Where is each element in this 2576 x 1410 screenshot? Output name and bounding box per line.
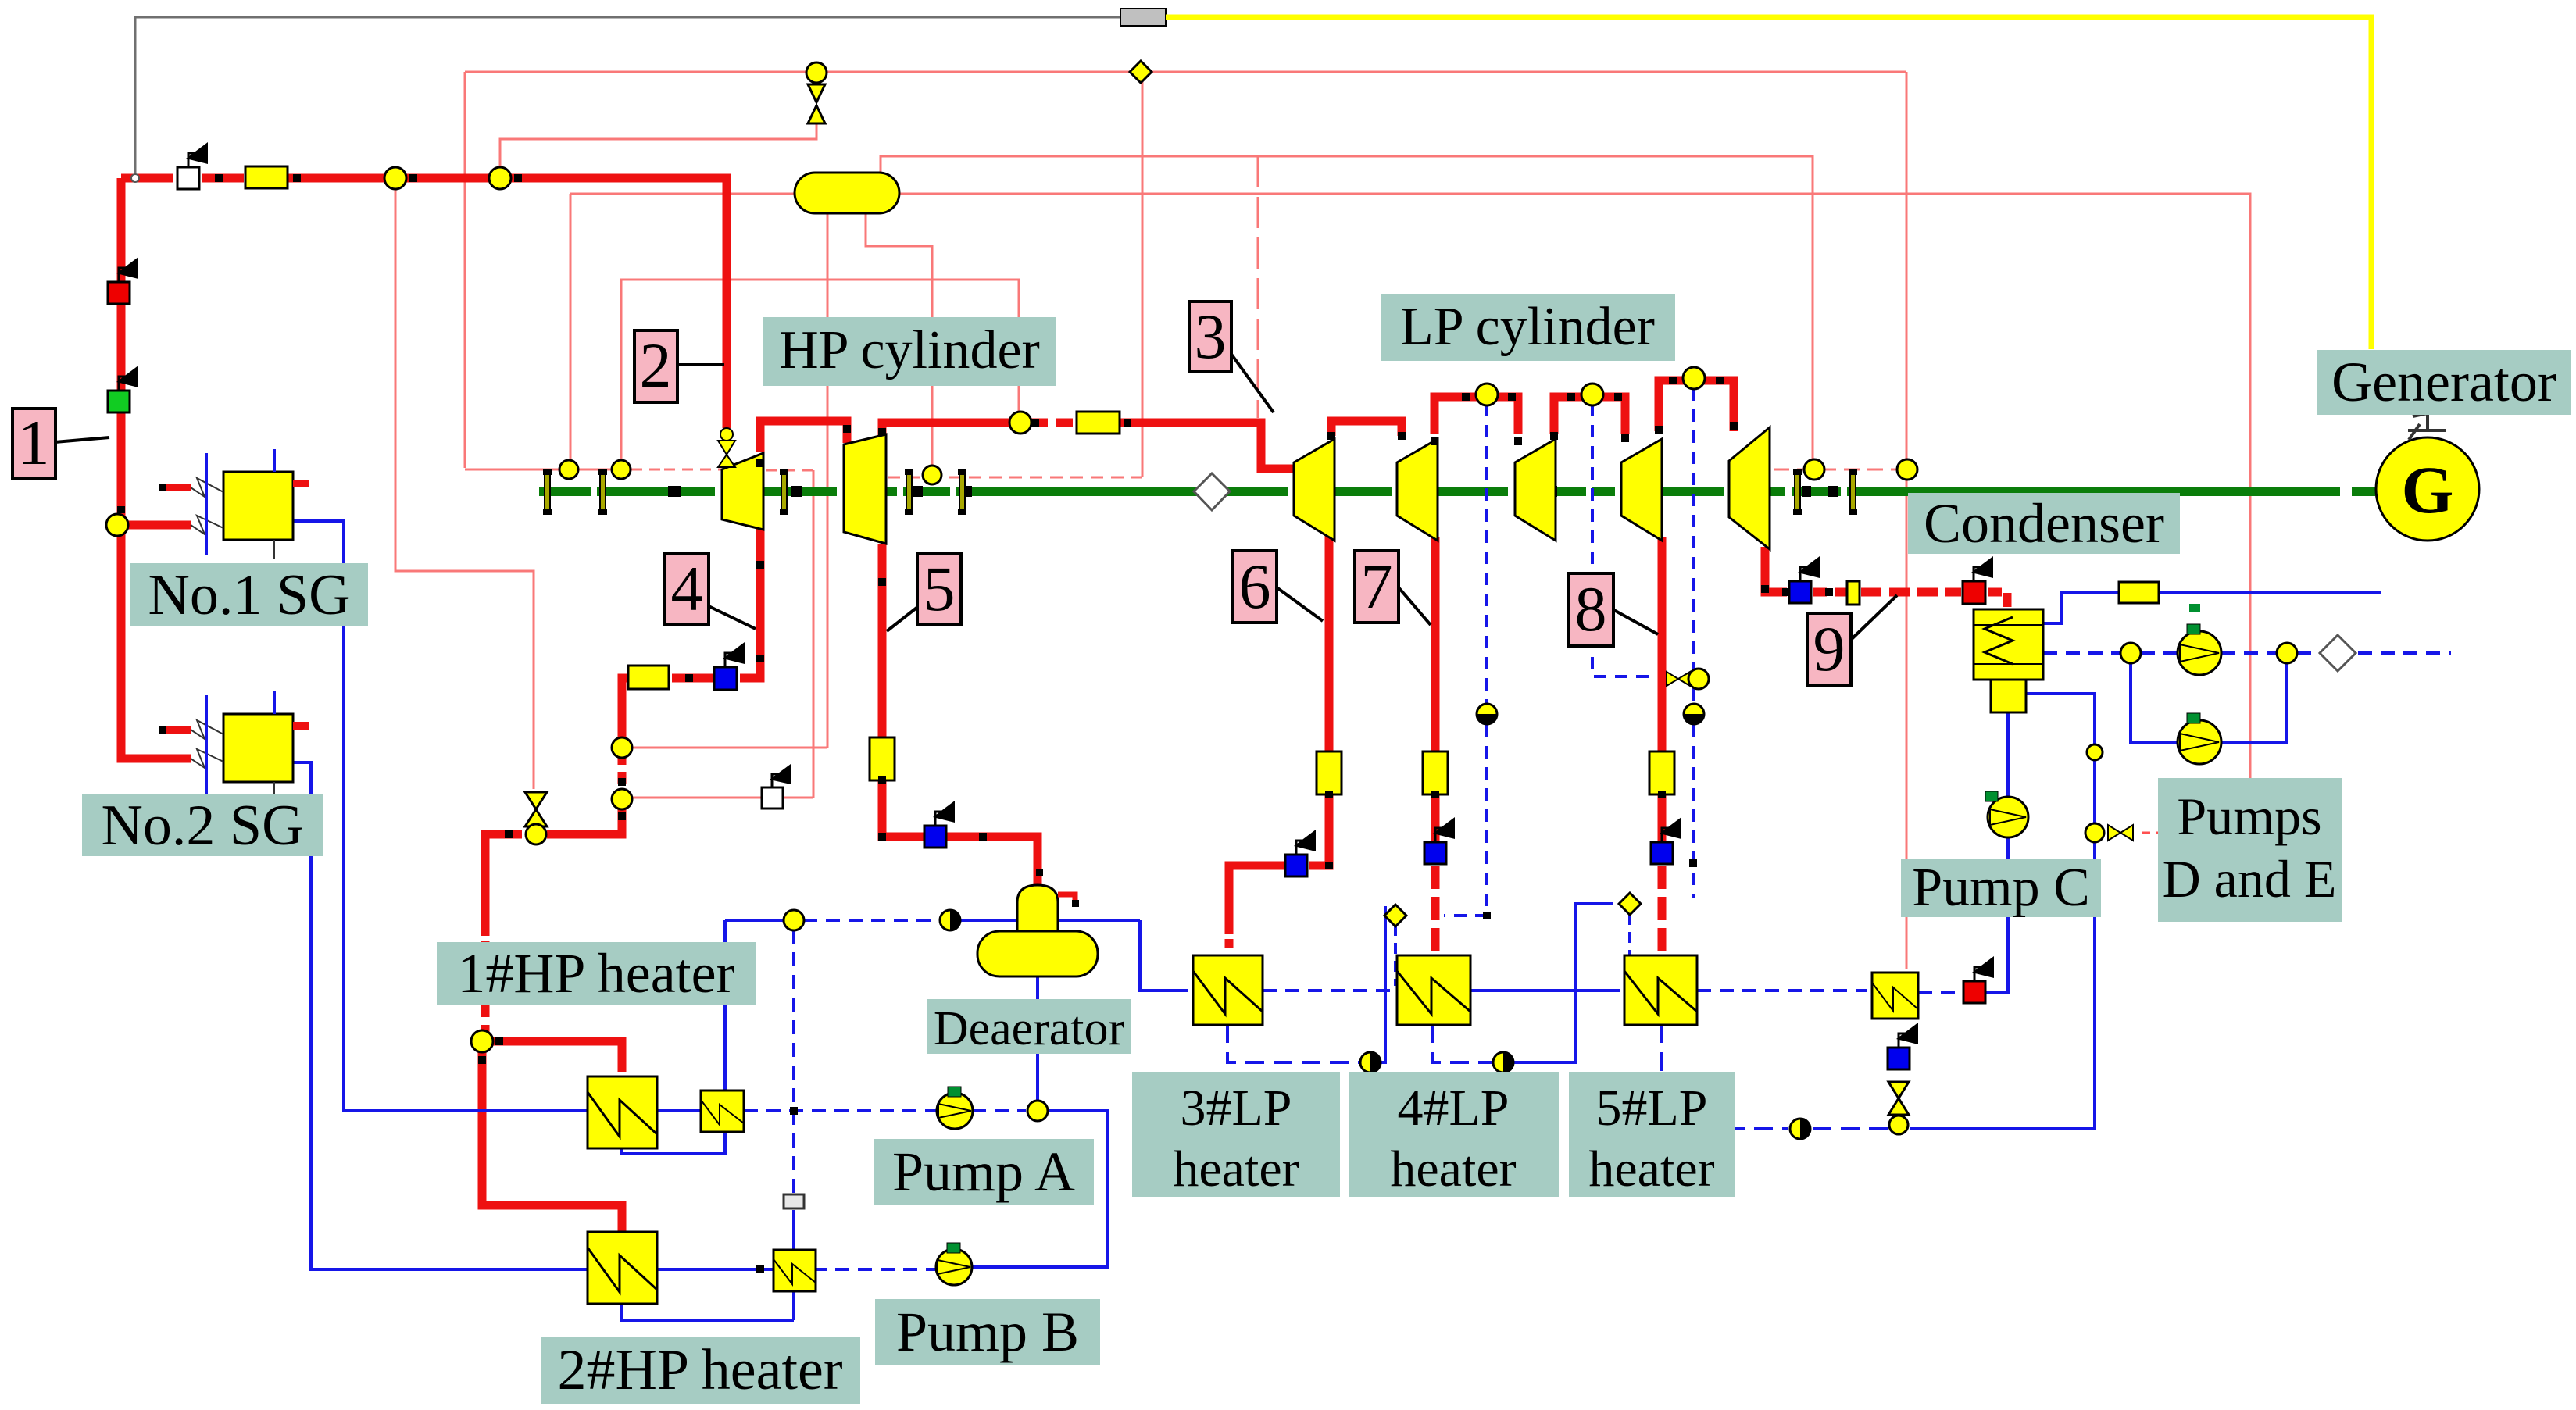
gray box <box>1120 9 1166 26</box>
pipe extraction 4 from HP1 <box>740 528 760 678</box>
bearing B2 <box>598 469 607 515</box>
node circle gland right 1 <box>1804 459 1824 480</box>
wire feedwater 2#HP heater row <box>657 1268 777 1271</box>
label Deaerator <box>927 999 1131 1055</box>
steam generator No.2 <box>159 691 309 801</box>
svg-text:2: 2 <box>640 330 672 401</box>
turbine LP5 <box>1729 427 1770 549</box>
wire drum bottom left vertical x=1059 <box>827 213 829 748</box>
pipe LP4-LP5 bridge <box>1659 380 1734 431</box>
wire stub drum to downcomer <box>731 193 795 195</box>
bearing B4 <box>905 469 913 515</box>
svg-text:heater: heater <box>1588 1140 1714 1198</box>
pipe extraction 8 from LP4 to 5#LP heater <box>1658 537 1667 751</box>
wire 4# drain riser into 5# heater <box>1628 914 1631 955</box>
svg-text:8: 8 <box>1575 573 1607 644</box>
wire 3# drain into main line <box>1394 925 1397 986</box>
pipe main steam left vertical x=155 <box>121 178 191 759</box>
valve red on left main <box>108 257 138 304</box>
bearing B6 <box>1793 469 1802 515</box>
turbine HP1 <box>722 453 763 530</box>
label Pump C <box>1901 858 2101 918</box>
wire gray control line <box>135 17 1120 178</box>
wire T2 from main-line circle up to hourglass <box>500 123 816 178</box>
label 1#HP heater <box>437 942 756 1005</box>
node circle drain column top <box>784 910 804 930</box>
svg-text:9: 9 <box>1813 613 1845 684</box>
pump B <box>936 1243 972 1285</box>
svg-text:Pump C: Pump C <box>1912 858 2090 918</box>
shaft main <box>539 486 2375 497</box>
svg-text:3: 3 <box>1195 301 1227 372</box>
wire vertical x=1041 down to white-valve line <box>813 470 815 798</box>
svg-text:No.1 SG: No.1 SG <box>148 563 350 627</box>
wire condenser aux line y=758 <box>2043 592 2119 623</box>
bearing B5 <box>958 469 966 515</box>
drain cooler small 2# row <box>774 1250 816 1291</box>
breaker small gray on drain column <box>784 1194 804 1208</box>
bearing B7 <box>1849 469 1857 515</box>
drain cooler small 1# row <box>701 1091 744 1132</box>
svg-text:Deaerator: Deaerator <box>934 1002 1125 1055</box>
node diamond on T1 <box>1130 61 1152 83</box>
valve blue on extraction 6 <box>1285 830 1316 876</box>
pipe LP5 exhaust to condenser <box>1765 547 1787 592</box>
label Generator <box>2317 350 2571 415</box>
gland steam cooler <box>1872 973 1918 1019</box>
svg-text:Pump A: Pump A <box>892 1140 1075 1203</box>
valve green on left main <box>108 366 138 412</box>
label No.1 SG <box>130 563 368 627</box>
tag 8 <box>1569 573 1658 646</box>
black shaft ticks <box>668 486 1838 497</box>
label Pumps D and E <box>2158 778 2342 922</box>
heater 4#LP <box>1397 955 1470 1025</box>
svg-text:Pump B: Pump B <box>896 1301 1079 1363</box>
node circle on main header 1 <box>384 167 406 189</box>
svg-text:5: 5 <box>924 553 956 624</box>
svg-text:1: 1 <box>18 407 50 478</box>
tag 2 <box>634 330 724 402</box>
svg-text:4: 4 <box>671 553 703 624</box>
node circle bridge LP3-LP4 <box>1581 384 1603 405</box>
wire feedwater 1#HP heater row <box>657 1109 701 1112</box>
node circle condensate after pump D <box>2277 643 2297 663</box>
node circle bridge LP2-LP3 <box>1476 384 1498 405</box>
wire T5 lower part to aux heater <box>1906 469 1908 969</box>
node circle deaerator outlet <box>1027 1101 1048 1121</box>
label No.2 SG <box>82 794 323 858</box>
wire LP extraction dashed A x=1903 <box>1485 404 1488 704</box>
tag 3 <box>1189 301 1274 412</box>
valve white on main header <box>177 142 208 189</box>
wire LP1 inlet riser x=1610 <box>1257 156 1259 418</box>
pipe LP2-LP3 bridge <box>1434 397 1518 434</box>
node circle on riser to pumps DE <box>2087 744 2103 760</box>
svg-text:D and E: D and E <box>2163 849 2337 908</box>
wire condensate pumps main y=836 <box>2043 651 2120 655</box>
svg-text:6: 6 <box>1239 551 1271 622</box>
orifice on crossover <box>1077 412 1120 434</box>
tag 4 <box>665 553 756 629</box>
pipe extraction 7 from LP2 to 4#LP heater <box>1431 537 1440 751</box>
generator <box>2376 410 2479 541</box>
label 2#HP heater <box>541 1337 860 1404</box>
wire diamond descender x=1462 <box>1142 77 1144 477</box>
label Pump B <box>875 1299 1100 1365</box>
label LP cylinder <box>1381 294 1675 361</box>
wire yellow electric line <box>1166 17 2371 349</box>
node small circle gray line tap <box>131 174 139 182</box>
valve blue on extraction 5 <box>924 801 955 848</box>
wire 4# drain <box>1432 1024 1493 1062</box>
wire pump E bypass loop <box>2131 663 2178 742</box>
wire gland line right of LP5 <box>1774 469 1918 471</box>
wire condensate main line 3#-4# <box>1263 989 1392 992</box>
turbine LP3 <box>1515 439 1556 541</box>
label 5#LP heater <box>1569 1072 1735 1198</box>
node circle left main SG1 <box>106 514 128 536</box>
wire deaerator feed line y=1178 <box>725 919 784 922</box>
svg-text:No.2 SG: No.2 SG <box>101 794 303 858</box>
orifice on condenser aux line <box>2119 582 2159 603</box>
label HP cylinder <box>763 317 1056 386</box>
orifice small on LP exhaust <box>1847 581 1860 605</box>
wire SG1 blue drain x=440 <box>293 521 588 1111</box>
steam generator No.1 <box>159 449 309 559</box>
svg-text:2#HP heater: 2#HP heater <box>557 1338 842 1402</box>
node circle gland 2 <box>612 460 631 479</box>
wire gland-steam header T1 y=89 <box>465 71 1906 73</box>
turbine LP4 <box>1621 439 1662 541</box>
node circle on crossover <box>1009 412 1031 434</box>
wire T5 right descender x=2437 <box>1906 72 1908 469</box>
wire dashed red at y=611 right of HP2 <box>888 477 1142 479</box>
bearing B3 <box>780 469 788 515</box>
tag 5 <box>887 553 961 631</box>
node circle above shaft right of HP2 <box>923 466 941 484</box>
valve blue on extraction 7 <box>1424 817 1455 864</box>
valve red at condenser inlet <box>1963 556 1993 604</box>
wire SG2 blue drain x=398 <box>293 762 588 1269</box>
label Pump A <box>874 1139 1094 1205</box>
wire deaerator downcomer <box>1036 976 1039 1101</box>
strainer diamond after pump D <box>2320 635 2356 671</box>
wire LP extraction dashed C x=2168 <box>1692 388 1695 669</box>
pipe LP3-LP4 bridge <box>1554 397 1625 434</box>
wire gland cooler to red valve to pump C <box>1918 991 1963 994</box>
wire gland line left y=601 <box>465 469 568 471</box>
check valve 3# drain <box>1360 1052 1381 1073</box>
pipe to 2#HP heater <box>482 1051 622 1237</box>
shaft diamond coupling <box>1194 473 1230 510</box>
node circle 1#HP feed junction <box>471 1030 493 1052</box>
svg-text:LP cylinder: LP cylinder <box>1400 297 1655 357</box>
pump E <box>2178 713 2221 764</box>
wire extraction tap line y=1021 <box>633 797 762 799</box>
wire condensate main 4#-5# <box>1470 989 1620 992</box>
pipe HP1 to HP2 bridge <box>760 421 847 452</box>
pipe crossover HP2 to LP <box>882 423 1010 436</box>
valve blue on LP exhaust <box>1789 556 1820 603</box>
orifice on extraction 6 <box>1317 751 1342 794</box>
wire heater-drain column x=1016 <box>792 930 795 1194</box>
bearing B1 <box>543 469 552 515</box>
svg-text:7: 7 <box>1361 551 1393 622</box>
valve hourglass on T1 line <box>806 62 827 123</box>
wire aux steam to pumps D and E <box>2142 832 2158 834</box>
svg-text:Condenser: Condenser <box>1924 492 2164 555</box>
tag 7 <box>1355 551 1431 625</box>
wire 5# drain header y=1445 <box>1662 1024 1788 1129</box>
check valve dashed C <box>1684 704 1704 724</box>
svg-text:G: G <box>2402 452 2454 527</box>
valve bowtie aux to pumps DE <box>2085 823 2133 842</box>
wire vertical x=730 to gland circle <box>570 194 572 469</box>
turbine HP2 <box>844 434 886 544</box>
valve blue under gland cooler <box>1888 1023 1918 1069</box>
orifice on extraction 5 <box>870 737 895 780</box>
node circle gland 1 <box>559 460 578 479</box>
orifice on extraction 7 <box>1423 751 1448 794</box>
svg-text:5#LP: 5#LP <box>1595 1080 1707 1137</box>
valve hourglass before 1#HP heater <box>525 792 547 844</box>
node circle on drain header <box>1889 1116 1908 1134</box>
valve hourglass under gland cooler <box>1888 1082 1909 1134</box>
moisture separator drum <box>795 173 899 213</box>
pump D <box>2178 604 2221 675</box>
node circle on main header 2 <box>489 167 511 189</box>
deaerator vessel <box>977 885 1098 976</box>
node circle extraction 4 tap 2 <box>612 789 632 809</box>
wire T1 left descender x=595 to gland line <box>464 72 466 468</box>
svg-text:HP cylinder: HP cylinder <box>779 320 1040 380</box>
valve blue on extraction 4 <box>714 642 745 690</box>
wire pump C to hotwell <box>2006 712 2010 796</box>
wire extraction tap line y=957 <box>633 747 827 749</box>
heater 5#LP <box>1624 955 1697 1025</box>
wire 3# drain <box>1227 1024 1360 1062</box>
wire LP extraction dashed B x=2038 <box>1592 404 1657 676</box>
svg-text:Generator: Generator <box>2331 351 2556 413</box>
condenser <box>1974 609 2043 712</box>
check valve dashed A <box>1477 704 1497 724</box>
wire 1#HP drain loop <box>622 920 725 1154</box>
valve white on tap 2 line <box>762 764 791 809</box>
pipe extraction 5 from HP2 <box>878 544 887 737</box>
label Condenser <box>1908 492 2180 555</box>
turbine LP2 <box>1397 439 1438 541</box>
pump C <box>1985 791 2028 837</box>
svg-text:Pumps: Pumps <box>2177 787 2321 846</box>
label 3#LP heater <box>1132 1072 1340 1198</box>
wire condensate 5# to gland cooler <box>1697 989 1867 992</box>
wire drum bottom staircase to circle above shaft <box>866 213 932 473</box>
tag 9 <box>1807 595 1897 685</box>
turbine LP1 <box>1294 439 1334 541</box>
wire gland dashed across HP1 to corner x=1041 <box>766 469 813 472</box>
valve hourglass HP stop <box>718 428 735 467</box>
node circle extraction 4 tap 1 <box>612 737 632 758</box>
svg-text:4#LP: 4#LP <box>1397 1080 1509 1137</box>
pipe LP1-LP2 bridge <box>1331 421 1402 436</box>
node circle condensate before pump D <box>2120 643 2141 663</box>
pipe extraction 6 from LP1 to 3#LP heater <box>1325 535 1334 751</box>
svg-text:3#LP: 3#LP <box>1180 1080 1292 1137</box>
heater 2#HP <box>588 1232 657 1304</box>
diamond valve 3# drain riser <box>1384 905 1406 926</box>
orifice on extraction 8 <box>1649 751 1674 794</box>
pipe 1#HP heater feed <box>492 1041 622 1072</box>
valve red near pump C <box>1963 956 1994 1003</box>
white gaps on shaft <box>591 486 1847 497</box>
tag 6 <box>1233 551 1323 623</box>
node circle bridge LP4-LP5 <box>1683 367 1705 389</box>
wire 2#HP drain <box>621 1303 794 1320</box>
heater 1#HP <box>588 1076 657 1148</box>
svg-text:heater: heater <box>1390 1140 1516 1198</box>
wire bridge line y=358 linking gland and crossover circles <box>621 280 1019 469</box>
pump A <box>937 1087 973 1129</box>
label 4#LP heater <box>1349 1072 1559 1198</box>
wire tap from main header circle down to HP heater valve <box>395 189 534 789</box>
diamond valve 4# drain riser <box>1619 893 1641 915</box>
wire drum right line T4 y=248 <box>899 194 2250 778</box>
svg-text:1#HP heater: 1#HP heater <box>457 942 734 1005</box>
svg-text:heater: heater <box>1173 1140 1299 1198</box>
heater 3#LP <box>1193 955 1263 1025</box>
orifice on extraction 4 <box>628 666 669 689</box>
wire drum left line y=248 <box>570 193 795 195</box>
pipe SG1 inlet stub <box>127 521 191 530</box>
pipe main steam header y=228 <box>121 174 173 183</box>
check valve 4# drain <box>1493 1052 1513 1073</box>
wire into 3#LP heater <box>1140 920 1188 991</box>
valve blue on extraction 8 <box>1651 817 1681 864</box>
check valve deaerator line <box>940 910 960 930</box>
check valve 5# drain header <box>1790 1119 1810 1139</box>
wire drum top line T3 y=200 <box>881 156 1813 462</box>
orifice on main steam header <box>245 166 288 188</box>
node circle gland right 2 <box>1897 459 1917 480</box>
valve bowtie on extraction 8 to dashed C <box>1667 669 1709 689</box>
tag 1 <box>13 407 109 478</box>
